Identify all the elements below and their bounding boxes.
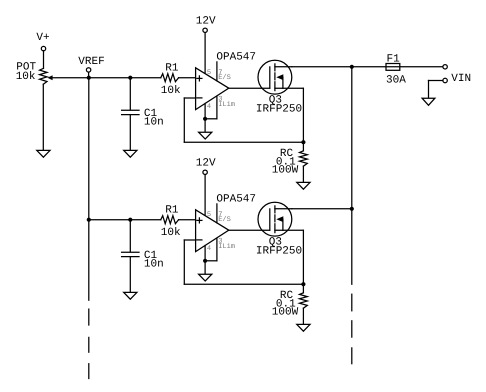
terminal VREF (78, 56, 104, 78)
pin labels (ch1) (207, 69, 235, 111)
capacitor C1 10n (ch2) (122, 250, 164, 271)
svg-text:5: 5 (207, 69, 211, 77)
svg-text:IRFP250: IRFP250 (256, 246, 302, 258)
resistor RC 0.1 100W (ch1) (272, 142, 308, 182)
node drain bus junction ch1 (350, 65, 354, 69)
wire POT to ground (42, 84, 44, 150)
node VREF junction (ch2) (87, 218, 91, 222)
svg-text:10n: 10n (144, 259, 164, 271)
supply 12V (ch2) (196, 158, 216, 216)
wire VREF bus down (88, 78, 90, 301)
ground (C1 ch2) (124, 292, 137, 299)
svg-text:100W: 100W (272, 307, 299, 319)
svg-text:VIN: VIN (451, 73, 471, 85)
wire drain bus (351, 67, 353, 284)
wire R1 to op-amp (ch2) (179, 219, 196, 221)
ground (op-amp ch1) (199, 132, 212, 139)
op-amp U1 OPA547 (ch1) (196, 52, 256, 119)
wire source down (ch2) (302, 230, 304, 284)
resistor RC 0.1 100W (ch2) (272, 284, 308, 324)
resistor R1 10k (ch2) (161, 204, 181, 239)
fuse F1 30A (386, 54, 445, 87)
svg-text:R1: R1 (165, 204, 179, 216)
ground (C1 ch1) (124, 150, 137, 157)
node pin4 junction (ch2) (203, 259, 207, 263)
svg-text:4: 4 (207, 245, 211, 253)
node source/RC junction (ch2) (301, 282, 305, 286)
wire source down (ch1) (302, 88, 304, 142)
svg-text:30A: 30A (386, 74, 406, 86)
svg-text:10k: 10k (16, 71, 36, 83)
node VREF junction (ch1) (87, 76, 91, 80)
svg-text:V+: V+ (36, 32, 49, 44)
terminal VIN+ (443, 65, 447, 69)
svg-text:OPA547: OPA547 (216, 52, 256, 64)
ground (VIN) (422, 98, 435, 105)
wire feedback (ch2) (184, 240, 303, 284)
node pin4 junction (ch1) (203, 117, 207, 121)
svg-text:R1: R1 (165, 62, 179, 74)
wire pin4 to ground (ch2) (204, 261, 206, 274)
capacitor C1 10n (ch1) (122, 108, 164, 129)
node C1 junction (ch1) (128, 76, 132, 80)
node source/RC junction (ch1) (301, 140, 305, 144)
svg-text:4: 4 (207, 103, 211, 111)
wire C1 to ground (ch1) (129, 115, 131, 151)
svg-text:E/S: E/S (218, 73, 231, 82)
wire feedback (ch1) (184, 98, 303, 142)
svg-text:OPA547: OPA547 (216, 194, 256, 206)
supply 12V (ch1) (196, 16, 216, 74)
wire VREF to R1 (ch2) (89, 219, 161, 221)
transistor Q3 IRFP250 (ch1) (256, 60, 304, 115)
svg-text:10k: 10k (161, 227, 181, 239)
svg-text:5: 5 (207, 211, 211, 219)
resistor R1 10k (ch1) (161, 62, 181, 97)
node drain bus junction ch2 (350, 207, 354, 211)
ground (RC ch2) (297, 324, 310, 331)
svg-text:10n: 10n (144, 117, 164, 129)
terminal VIN- (429, 78, 448, 98)
terminal V+ (36, 32, 49, 51)
wire VREF to R1 (ch1) (89, 77, 161, 79)
ground (POT) (37, 150, 50, 157)
wire C1 branch (ch2) (129, 220, 131, 252)
potentiometer POT 10k (16, 62, 89, 85)
svg-text:12V: 12V (196, 158, 216, 170)
wire drain rail ch2 (292, 208, 352, 210)
wire pin4 to ground (ch1) (204, 119, 206, 132)
wire op-amp output to gate (ch2) (229, 229, 270, 231)
svg-text:ILim: ILim (218, 242, 235, 251)
dashed continuation (VREF bus) (88, 309, 90, 378)
ground (op-amp ch2) (199, 274, 212, 281)
node C1 junction (ch2) (128, 218, 132, 222)
label VIN (451, 73, 471, 85)
wire op-amp output to gate (ch1) (229, 87, 270, 89)
svg-text:12V: 12V (196, 16, 216, 28)
pin labels (ch2) (207, 211, 235, 253)
wire C1 to ground (ch2) (129, 257, 131, 293)
wire R1 to op-amp (ch1) (179, 77, 196, 79)
svg-text:E/S: E/S (218, 215, 231, 224)
svg-text:IRFP250: IRFP250 (256, 104, 302, 116)
wire drain rail ch1 (292, 66, 386, 68)
wire C1 branch (ch1) (129, 78, 131, 110)
op-amp U1 OPA547 (ch2) (196, 194, 256, 261)
svg-text:100W: 100W (272, 165, 299, 177)
transistor Q3 IRFP250 (ch2) (256, 202, 304, 257)
svg-text:VREF: VREF (78, 56, 104, 68)
svg-text:10k: 10k (161, 85, 181, 97)
svg-text:ILim: ILim (218, 100, 235, 109)
ground (RC ch1) (297, 182, 310, 189)
dashed continuation (drain bus) (351, 294, 353, 364)
wire V+ to POT (43, 51, 45, 69)
